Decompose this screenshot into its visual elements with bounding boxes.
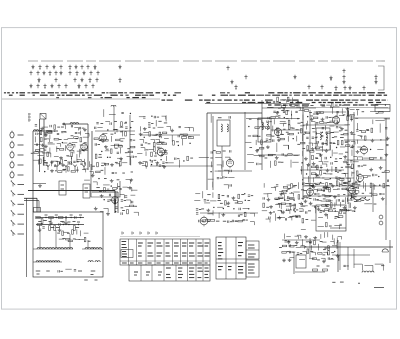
value label [339, 157, 342, 159]
capacitor C60 [267, 120, 268, 122]
wire [204, 202, 210, 204]
value label [309, 111, 312, 113]
value label [296, 129, 299, 131]
coil L7 [320, 132, 321, 140]
jack sleeve contacts [373, 183, 383, 225]
wire [377, 149, 383, 151]
ground [379, 166, 383, 169]
capacitor C99 [115, 207, 117, 208]
wire [314, 111, 318, 113]
value label [62, 237, 65, 239]
wire [76, 154, 78, 160]
resistor R98 [311, 173, 315, 175]
wire [348, 202, 350, 208]
earpiece symbol [382, 249, 388, 252]
wire [313, 131, 317, 133]
wire [210, 200, 216, 202]
wire [281, 210, 283, 213]
capacitor C43 [178, 135, 179, 137]
resistor R80 [319, 112, 323, 114]
wire [267, 193, 272, 195]
capacitor C11 [79, 127, 80, 129]
connector pin P4 [10, 161, 14, 168]
wire [290, 251, 296, 253]
wire [296, 106, 300, 108]
ground [350, 131, 354, 134]
value label [355, 117, 358, 119]
legend trimmer marker T22 [37, 78, 40, 83]
capacitor C46 [230, 150, 231, 152]
value label [62, 169, 65, 171]
value label [354, 200, 358, 202]
value label [310, 250, 313, 252]
wire [143, 160, 148, 162]
wire [279, 191, 283, 193]
capacitor C38 [141, 144, 143, 145]
capacitor C17 [73, 161, 75, 162]
legend trimmer marker T15 [54, 71, 57, 76]
value label [352, 172, 355, 174]
wire [324, 258, 326, 261]
wire [290, 185, 292, 188]
resistor R136 [282, 190, 286, 192]
wire [43, 126, 48, 128]
value label [296, 209, 298, 211]
ground [303, 200, 307, 203]
wire [70, 162, 72, 165]
wire [316, 111, 346, 113]
wire [170, 127, 172, 130]
wire [339, 242, 341, 270]
aerial terminal E6 [11, 230, 15, 236]
wire [338, 182, 340, 187]
capacitor C91 [387, 180, 388, 182]
wire [353, 194, 357, 196]
wave band coil group 2 [82, 248, 103, 249]
value label [64, 131, 67, 133]
wire [315, 132, 317, 135]
legend adjustment marker A2 [118, 78, 121, 83]
capacitor C87 [372, 174, 373, 176]
wire [51, 161, 53, 167]
value label [337, 188, 340, 190]
value label [313, 113, 316, 115]
wire [279, 204, 281, 207]
capacitor C67 [316, 122, 318, 123]
capacitor C32 [112, 172, 114, 173]
legend trimmer marker T4 [52, 65, 55, 70]
wire [322, 146, 324, 152]
legend trimmer marker T6 [68, 65, 71, 70]
wire [344, 124, 350, 126]
ground [269, 205, 273, 208]
value label [274, 186, 276, 188]
value label [382, 171, 385, 173]
capacitor C90 [386, 144, 388, 145]
capacitor C40 [161, 154, 162, 156]
resistor R107 [345, 145, 349, 147]
value label [73, 238, 76, 240]
value label [101, 139, 104, 141]
ground [162, 165, 166, 168]
capacitor C116 [285, 218, 286, 220]
wire [205, 103, 310, 105]
wire [150, 165, 213, 167]
capacitor C88 [379, 193, 381, 194]
aerial terminal E5 [11, 220, 15, 226]
wire [349, 178, 351, 181]
wire [50, 219, 52, 222]
capacitor C49 [223, 176, 224, 178]
wire [263, 193, 267, 195]
value label [338, 177, 340, 179]
resistor R87 [301, 142, 305, 144]
wire [275, 203, 279, 205]
wire [262, 107, 316, 109]
value label [305, 219, 308, 221]
wire [329, 145, 331, 151]
value label [290, 216, 293, 218]
ground [119, 157, 123, 160]
value label [289, 205, 292, 207]
wire [85, 132, 89, 134]
capacitor C10 [71, 125, 72, 127]
wire [307, 164, 309, 170]
IF transformer T1 can [217, 120, 230, 146]
value label [363, 164, 366, 166]
ground [106, 212, 110, 215]
legend trimmer marker T14 [48, 71, 51, 76]
resistor R134 [283, 186, 287, 188]
wire [303, 195, 307, 197]
connector pin P4 label [18, 164, 24, 166]
wire [293, 191, 299, 193]
wire [348, 193, 352, 195]
value label [309, 242, 312, 244]
resistor R31 [114, 144, 118, 146]
wire [301, 229, 306, 231]
coil tap symbols [46, 165, 86, 171]
capacitor C52 [257, 163, 258, 165]
value label [216, 220, 219, 222]
resistor R126 [218, 194, 220, 198]
aerial terminal E1 label [18, 184, 25, 186]
resistor R52 [173, 141, 175, 145]
wire [332, 254, 370, 256]
resistor R139 [294, 204, 296, 208]
capacitor C110 [232, 220, 233, 222]
capacitor C76 [325, 157, 326, 159]
capacitor C93 [119, 188, 121, 189]
value label [217, 200, 220, 202]
resistor R28 [94, 138, 98, 140]
wire [208, 178, 214, 180]
value label [262, 126, 265, 128]
ground [41, 143, 45, 146]
value label [343, 114, 346, 116]
wire [314, 252, 316, 255]
capacitor C141 [74, 270, 76, 271]
resistor R22 [34, 152, 38, 154]
wire [341, 173, 345, 175]
value label [283, 128, 285, 130]
wire [355, 191, 357, 194]
value label [114, 120, 117, 122]
wire [90, 164, 92, 197]
wire [285, 209, 289, 211]
value label [270, 107, 273, 109]
wire [330, 125, 335, 127]
legend trimmer marker T13 [42, 71, 45, 76]
resistor R166 [49, 217, 54, 219]
wire [137, 212, 139, 216]
wire [346, 177, 350, 179]
value label [322, 177, 325, 179]
value label [98, 143, 100, 145]
wire [364, 264, 373, 266]
wire [289, 206, 291, 209]
wire [166, 156, 168, 161]
value label [327, 187, 330, 189]
value label [44, 132, 47, 134]
value label [342, 104, 344, 106]
capacitor C142 [284, 241, 286, 242]
value label [63, 168, 66, 170]
wire [312, 205, 316, 207]
value label [376, 112, 379, 114]
wire [120, 158, 122, 161]
legend trimmer marker T7 [74, 65, 77, 70]
value label [350, 147, 353, 149]
resistor R158 [328, 210, 332, 212]
value label [273, 154, 276, 156]
value label [333, 143, 336, 145]
wire [310, 195, 372, 197]
capacitor C28 [130, 139, 132, 140]
coil L8 [326, 132, 327, 140]
wire [353, 156, 357, 158]
value label [366, 129, 369, 131]
wire [331, 116, 336, 118]
ground [312, 162, 316, 165]
resistor R150 [326, 188, 330, 190]
wire [171, 135, 173, 141]
wire [354, 141, 356, 144]
capacitor C34 [154, 116, 155, 118]
detector diode box [375, 105, 390, 112]
capacitor C41 [159, 165, 161, 166]
value label [115, 161, 118, 163]
socket voltage table [216, 237, 246, 279]
wire [309, 238, 311, 258]
value label [225, 176, 227, 178]
wire [83, 136, 89, 138]
wire [360, 149, 368, 151]
value label [31, 152, 34, 154]
value label [122, 210, 125, 212]
value label [91, 274, 94, 276]
wire [120, 194, 125, 196]
wire [275, 213, 277, 220]
wire [165, 116, 167, 119]
wire [39, 226, 41, 229]
wire [295, 271, 325, 273]
value label [131, 121, 133, 123]
legend adjustment marker A8 [307, 85, 310, 90]
value label [333, 208, 336, 210]
value label [110, 199, 113, 201]
value label [339, 126, 341, 128]
wire [224, 169, 229, 171]
resistor R152 [342, 188, 346, 190]
wire [247, 154, 254, 156]
wire [344, 197, 346, 204]
wire [351, 182, 355, 184]
legend trimmer marker T11 [29, 71, 32, 76]
tube V5 [226, 158, 233, 168]
ground [277, 138, 281, 141]
value label [165, 162, 167, 164]
aerial terminal E1 [11, 181, 15, 187]
value label [357, 184, 360, 186]
value label [350, 119, 353, 121]
value label [146, 149, 149, 151]
value label [335, 158, 337, 160]
resistor R88 [326, 141, 328, 145]
resistor R90 [341, 140, 343, 144]
output enclosure box [316, 205, 346, 231]
capacitor C85 [357, 187, 358, 189]
wire [207, 112, 262, 114]
ground [356, 150, 360, 153]
wire [100, 140, 105, 142]
resistor R169 [49, 226, 51, 231]
IF transformer T3 can [316, 128, 330, 150]
value label [341, 134, 344, 136]
coil L6 [267, 122, 268, 130]
value label [235, 220, 237, 222]
legend trimmer marker T10 [93, 65, 96, 70]
aerial terminal E6 label [18, 233, 25, 235]
wire [158, 126, 164, 128]
ground [58, 229, 62, 232]
ground [40, 127, 44, 130]
wire [48, 143, 55, 145]
legend band right bracket [378, 66, 384, 90]
wire [130, 180, 132, 184]
connector pin P2 [10, 141, 14, 148]
resistor R144 [296, 215, 300, 217]
wire [312, 143, 314, 146]
value label [320, 146, 323, 148]
wire [364, 203, 372, 205]
capacitor C107 [238, 215, 239, 217]
wire [62, 142, 67, 144]
wire [320, 209, 325, 211]
wire [144, 148, 146, 151]
value label [323, 187, 326, 189]
value label [38, 133, 40, 135]
resistor R135 [291, 184, 293, 188]
value label [315, 136, 317, 138]
value label [44, 161, 48, 163]
wire [59, 226, 61, 229]
resistor R104 [350, 114, 354, 116]
value label [306, 241, 309, 243]
wire [67, 137, 73, 139]
wire [348, 190, 352, 192]
value label [71, 135, 74, 137]
resistor R110 [356, 171, 358, 175]
resistor R159 [340, 209, 342, 213]
wire [149, 149, 154, 151]
resistor R122 [112, 188, 116, 190]
ground [325, 169, 329, 172]
wire [74, 144, 76, 147]
capacitor C58 [268, 117, 269, 119]
value label [289, 209, 291, 211]
capacitor C39 [156, 152, 157, 154]
value label [332, 281, 335, 283]
wire [117, 192, 119, 213]
value label [350, 184, 353, 186]
wire [333, 238, 335, 243]
value label [381, 265, 384, 267]
wire [212, 116, 214, 190]
wire [330, 227, 346, 229]
value label [145, 142, 147, 144]
value label [340, 281, 344, 283]
value label [151, 122, 153, 124]
resistor R155 [326, 200, 330, 202]
value label [368, 175, 371, 177]
wire [302, 106, 304, 200]
resistor R39 [120, 161, 122, 165]
value label [331, 258, 333, 260]
value label [159, 134, 162, 136]
value label [288, 187, 291, 189]
resistor R58 [259, 147, 263, 149]
value label [190, 157, 193, 159]
wire [351, 195, 353, 198]
capacitor C12 [36, 133, 37, 135]
ground [295, 241, 299, 244]
resistor R74 [268, 154, 272, 156]
value label [326, 206, 329, 208]
capacitor C92 [107, 189, 109, 190]
value label [95, 279, 98, 281]
value label [46, 270, 50, 272]
ground [94, 207, 98, 210]
wire [104, 167, 106, 175]
wire [326, 252, 328, 255]
legend adjustment marker A9 [320, 85, 323, 90]
resistor R106 [344, 133, 348, 135]
wire [83, 159, 85, 164]
wire [114, 145, 116, 148]
resistor R100 [340, 179, 344, 181]
value label [287, 110, 290, 112]
value label [218, 117, 222, 119]
wire [248, 162, 254, 164]
value label [294, 185, 297, 187]
resistor R62 [281, 106, 285, 108]
ground [306, 163, 310, 166]
resistor R147 [353, 183, 357, 185]
wire [299, 110, 304, 112]
resistor R23 [58, 171, 62, 173]
legend trimmer marker T26 [88, 78, 91, 83]
